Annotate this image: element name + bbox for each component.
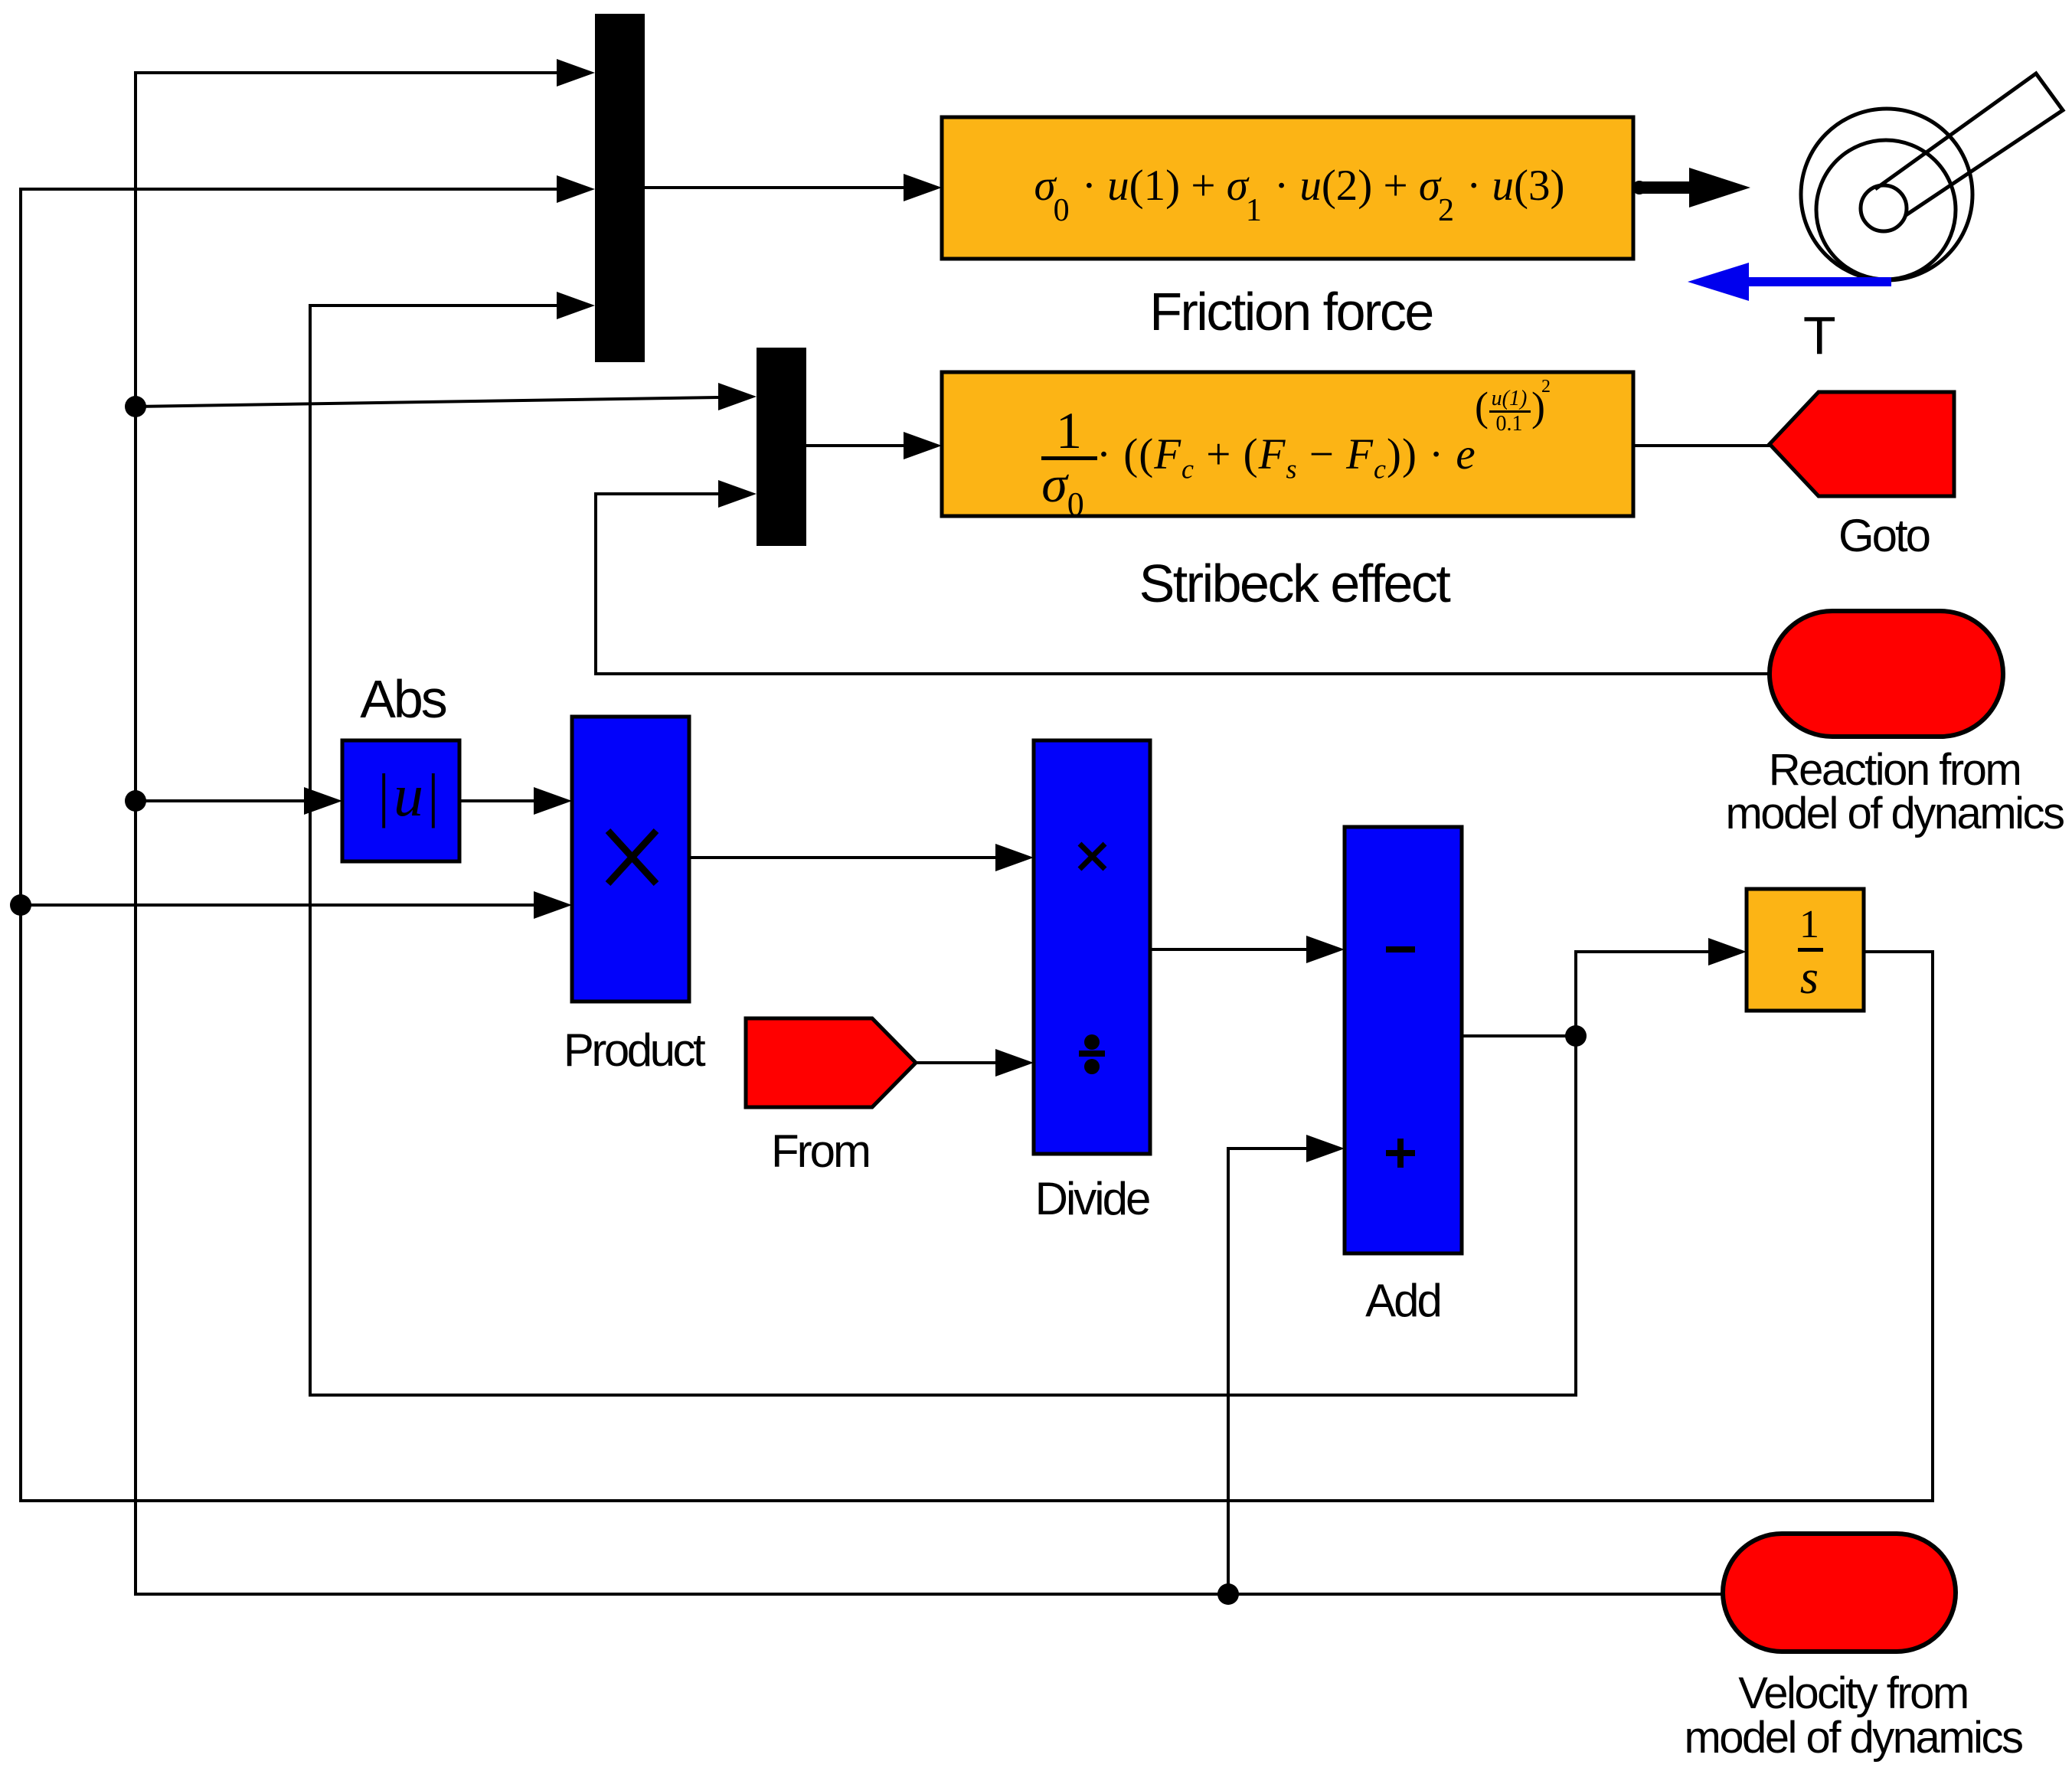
label T: [1803, 309, 1834, 362]
junction dot at Add output: [1565, 1025, 1587, 1047]
blue friction force arrow: [1688, 263, 1891, 301]
block Friction force: [942, 117, 1633, 259]
wire junction down and around to Mux1 input 3: [310, 306, 1576, 1395]
block Abs: [342, 740, 459, 861]
arrowhead into Stribeck block: [904, 432, 942, 459]
inport Velocity from model of dynamics: [1723, 1534, 1956, 1652]
arrowhead into Divide input 2: [995, 1049, 1034, 1077]
formula fraction 1/sigma0 in Stribeck block: [1056, 404, 1082, 456]
arrowhead into Mux1 input 1: [557, 59, 595, 87]
symbol plus in Add: [1386, 1139, 1415, 1168]
label Add: [1365, 1278, 1440, 1324]
wire Divide output to Add input 1: [1150, 948, 1306, 951]
formula 1/s in Integrator block: [1799, 905, 1819, 945]
arrowhead into Integrator: [1708, 938, 1747, 966]
mux Mux2: [757, 348, 806, 546]
symbol minus in Add: [1386, 946, 1415, 952]
wire branch to Abs input: [136, 799, 304, 802]
junction dot on Add input 2 branch: [1217, 1583, 1239, 1605]
label Friction force: [1149, 285, 1433, 338]
block Add: [1345, 827, 1462, 1253]
motor wheel outer circle: [1801, 109, 1972, 280]
arrowhead into Mux2 input 2: [718, 480, 757, 508]
arrowhead into Mux1 input 3: [557, 292, 595, 319]
wire Mux1 output to Friction force block: [645, 186, 904, 189]
mux Mux1: [595, 14, 645, 362]
wire Stribeck block output to Goto tag: [1633, 444, 1770, 447]
label Goto: [1838, 513, 1929, 559]
wire integrator output feedback loop to Mux1 input 2: [21, 189, 1933, 1501]
arrowhead into Product input 1: [534, 787, 572, 815]
junction dot on mux2 branch: [125, 396, 146, 417]
wire Product output to Divide input 1: [689, 856, 995, 859]
motor hub circle: [1861, 185, 1907, 231]
wire branch up to Add input 2: [1228, 1149, 1306, 1594]
arrowhead into Friction force block: [904, 174, 942, 201]
formula main row in Stribeck block: [1096, 433, 1476, 482]
arrowhead into Add input 2: [1306, 1135, 1345, 1162]
label Reaction from model of dynamics: [1725, 748, 2063, 835]
wire Abs output to Product input 1: [459, 799, 534, 802]
arrowhead into Add input 1: [1306, 936, 1345, 963]
Goto tag: [1770, 392, 1954, 496]
wire From tag to Divide input 2: [916, 1061, 995, 1064]
junction dot on Abs branch: [125, 790, 146, 812]
label From: [771, 1129, 869, 1175]
block Divide: [1034, 740, 1150, 1154]
arrowhead into Mux2 input 1: [718, 383, 757, 410]
wire branch to Mux2 input 1: [136, 397, 718, 407]
label Abs: [360, 672, 446, 726]
symbol x in Divide: [1080, 844, 1105, 869]
wire junction up to Integrator input: [1576, 952, 1708, 1036]
block Integrator: [1747, 889, 1864, 1011]
block Product: [572, 717, 689, 1001]
wire velocity feedback trunk from Velocity inport up left side into Mux1 input 1: [136, 73, 1723, 1594]
wire branch to Product input 2: [21, 903, 534, 907]
symbol x in Product: [608, 831, 656, 884]
formula in Friction force block: [1034, 164, 1564, 211]
motor wheel inner circle: [1816, 140, 1956, 279]
label Velocity from model of dynamics: [1684, 1671, 2021, 1760]
label Divide: [1035, 1176, 1149, 1222]
formula abs u in Abs block: [377, 766, 443, 825]
wire Add output to junction: [1462, 1034, 1576, 1037]
formula exponent in Stribeck block: [1475, 386, 1489, 427]
From tag: [746, 1018, 916, 1107]
motor shaft: [1875, 74, 2063, 215]
symbol divide in Divide: [1079, 1034, 1105, 1074]
inport Reaction from model of dynamics: [1770, 611, 2003, 737]
label Product: [564, 1028, 703, 1073]
thick output arrow from Friction force: [1632, 181, 1646, 194]
arrowhead into Mux1 input 2: [557, 175, 595, 203]
arrowhead into Product input 2: [534, 891, 572, 919]
block Stribeck effect: [942, 372, 1633, 516]
junction dot on Product branch: [10, 894, 31, 916]
wire Mux2 output to Stribeck block: [806, 444, 904, 447]
arrowhead into Divide input 1: [995, 844, 1034, 871]
label Stribeck effect: [1139, 557, 1449, 610]
wire Reaction inport to Mux2 input 2: [596, 494, 1770, 674]
arrowhead into Abs: [304, 787, 342, 815]
